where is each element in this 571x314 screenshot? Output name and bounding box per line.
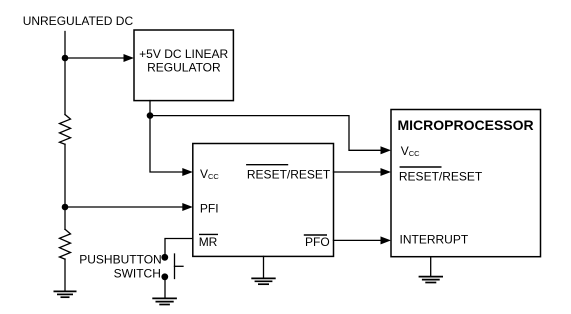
svg-text:MICROPROCESSOR: MICROPROCESSOR [398,117,534,133]
svg-text:INTERRUPT: INTERRUPT [400,233,469,247]
svg-text:REGULATOR: REGULATOR [147,61,221,75]
svg-text:PFO: PFO [305,235,330,249]
svg-text:SWITCH: SWITCH [114,267,161,281]
svg-text:RESET/RESET: RESET/RESET [399,170,483,184]
svg-text:+5V DC LINEAR: +5V DC LINEAR [139,47,228,61]
svg-text:PFI: PFI [200,201,219,215]
svg-text:PUSHBUTTON: PUSHBUTTON [79,253,161,267]
svg-text:RESET/RESET: RESET/RESET [247,168,331,182]
svg-text:MR: MR [199,235,218,249]
svg-text:UNREGULATED DC: UNREGULATED DC [23,14,134,28]
